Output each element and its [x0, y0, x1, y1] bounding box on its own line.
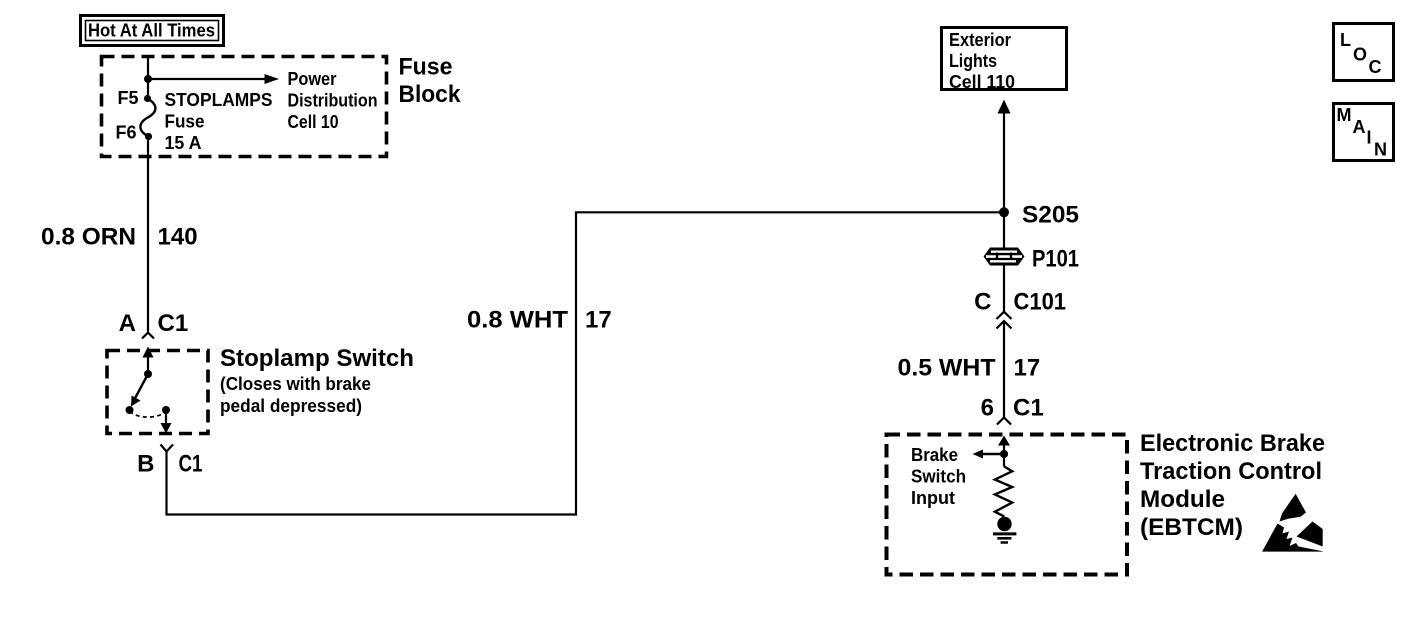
connector 6 C1 labels	[981, 395, 1044, 422]
connector B C1 female flare	[161, 445, 174, 452]
ground symbol bars	[993, 534, 1016, 543]
wire from fuse block top to F5	[147, 57, 149, 99]
svg-text:A: A	[119, 310, 136, 337]
svg-text:C101: C101	[1014, 289, 1067, 316]
node dot brake switch input	[1000, 450, 1008, 458]
wire S205 to P101	[1003, 212, 1005, 247]
svg-text:C1: C1	[158, 310, 189, 337]
svg-text:I: I	[1367, 128, 1372, 148]
connector 6 C1 male arrow into EBTCM	[998, 436, 1010, 455]
svg-text:L: L	[1340, 30, 1351, 50]
arrow to Brake Switch Input label	[973, 450, 1005, 459]
svg-text:Fuse: Fuse	[399, 54, 453, 81]
svg-text:B: B	[137, 451, 154, 478]
wire P101 to C101	[1003, 266, 1005, 312]
svg-text:Distribution: Distribution	[288, 91, 378, 111]
svg-text:O: O	[1353, 45, 1367, 65]
ESD sensitivity symbol	[1262, 494, 1323, 552]
svg-text:N: N	[1374, 140, 1387, 160]
connector C101 male chevron	[997, 321, 1012, 329]
pin F6	[115, 123, 152, 143]
svg-text:A: A	[1353, 117, 1366, 137]
connector C C101 labels	[974, 289, 1066, 316]
svg-text:Cell 110: Cell 110	[949, 72, 1015, 92]
svg-text:F5: F5	[117, 88, 138, 108]
wire label 0.5 WHT 17	[898, 355, 1041, 382]
svg-text:0.8 ORN: 0.8 ORN	[41, 224, 136, 251]
svg-text:140: 140	[158, 224, 198, 251]
svg-text:pedal depressed): pedal depressed)	[220, 396, 362, 416]
label Stoplamp Switch	[220, 345, 414, 416]
label Electronic Brake Traction Control Module (EBTCM)	[1140, 430, 1325, 541]
svg-text:Fuse: Fuse	[165, 112, 205, 132]
wire arrow to Power Distribution	[148, 74, 279, 84]
switch right contact dot	[162, 406, 170, 414]
MAIN reference box	[1334, 104, 1394, 161]
svg-text:S205: S205	[1022, 202, 1079, 229]
svg-text:17: 17	[585, 307, 612, 334]
switch left contact dot	[126, 406, 134, 414]
connector A C1 female flare	[142, 333, 154, 339]
label Fuse Block	[399, 54, 462, 109]
fuse block dashed box	[102, 57, 387, 157]
svg-text:C1: C1	[1013, 395, 1044, 422]
connector C101 female flare	[997, 312, 1012, 319]
stoplamp switch dashed box	[107, 351, 208, 434]
svg-text:C1: C1	[179, 451, 203, 478]
connector 6 C1 female flare	[997, 418, 1011, 425]
svg-text:M: M	[1337, 105, 1352, 125]
svg-text:(Closes with brake: (Closes with brake	[220, 374, 371, 394]
wire dot to resistor	[1003, 454, 1005, 466]
svg-text:0.5 WHT: 0.5 WHT	[898, 355, 996, 382]
connector A C1 labels	[119, 310, 189, 337]
svg-text:(EBTCM): (EBTCM)	[1140, 514, 1243, 541]
connector A C1 male arrow into switch	[143, 347, 154, 375]
arrow up to Exterior Lights	[998, 100, 1011, 213]
switch lever with arrowhead	[131, 374, 148, 407]
svg-text:P101: P101	[1032, 246, 1079, 273]
wire C101 down to 6 C1	[1003, 321, 1005, 417]
svg-text:Traction Control: Traction Control	[1140, 458, 1322, 485]
switch output arrow down to box edge	[161, 410, 172, 434]
label STOPLAMPS Fuse 15 A	[165, 90, 273, 153]
svg-text:0.8 WHT: 0.8 WHT	[467, 307, 568, 334]
svg-text:Hot At All Times: Hot At All Times	[88, 21, 215, 41]
svg-text:Brake: Brake	[911, 445, 958, 465]
svg-text:F6: F6	[115, 123, 136, 143]
wire B C1 down, right, and up to S205	[167, 212, 1005, 514]
splice node S205	[999, 202, 1079, 229]
svg-text:15 A: 15 A	[165, 133, 202, 153]
wire label 0.8 ORN 140	[41, 224, 198, 251]
Hot At All Times power feed box	[81, 16, 224, 46]
fuse F5/F6 STOPLAMPS 15A S-curve element	[140, 99, 155, 137]
svg-text:Exterior: Exterior	[949, 30, 1011, 50]
resistor zigzag	[995, 466, 1012, 516]
svg-text:Switch: Switch	[911, 467, 966, 487]
Exterior Lights Cell 110 box	[942, 28, 1067, 93]
svg-text:Electronic Brake: Electronic Brake	[1140, 430, 1325, 457]
svg-text:Block: Block	[399, 81, 462, 108]
svg-text:STOPLAMPS: STOPLAMPS	[165, 90, 273, 110]
label Power Distribution Cell 10	[288, 69, 378, 132]
svg-text:Cell 10: Cell 10	[288, 112, 339, 132]
svg-text:C: C	[1369, 57, 1382, 77]
wire F6 down to connector A C1	[147, 137, 149, 332]
svg-text:Input: Input	[911, 488, 955, 508]
LOC reference box	[1334, 24, 1394, 81]
svg-text:17: 17	[1014, 355, 1041, 382]
pass-through grommet P101	[984, 246, 1080, 273]
svg-text:Lights: Lights	[949, 51, 997, 71]
connector B C1 labels	[137, 451, 202, 478]
ground blob	[997, 517, 1011, 531]
svg-text:Stoplamp Switch: Stoplamp Switch	[220, 345, 414, 372]
node junction dot in fuse block	[144, 75, 152, 83]
switch dashed travel arc	[130, 411, 166, 417]
svg-text:Power: Power	[288, 69, 337, 89]
label Brake Switch Input	[911, 445, 966, 508]
EBTCM dashed box	[887, 435, 1128, 575]
switch pivot dot	[144, 370, 152, 378]
wire label 0.8 WHT 17	[467, 307, 612, 334]
svg-text:Module: Module	[1140, 486, 1225, 513]
svg-text:C: C	[974, 289, 991, 316]
pin F5	[117, 88, 151, 108]
svg-text:6: 6	[981, 395, 994, 422]
